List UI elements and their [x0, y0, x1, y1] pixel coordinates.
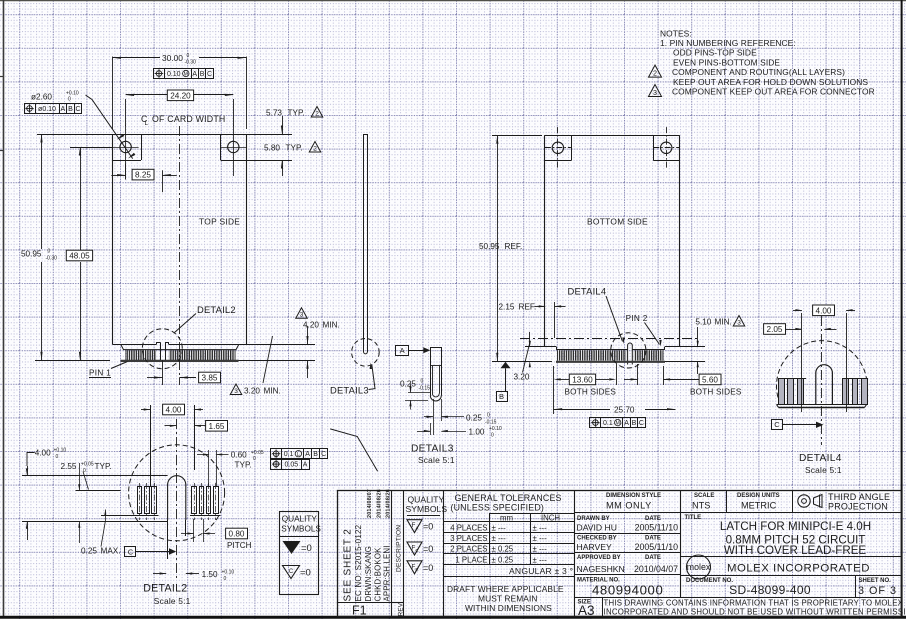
- svg-text:L: L: [297, 452, 300, 458]
- svg-text:C: C: [289, 569, 294, 575]
- svg-text:3: 3: [300, 312, 304, 319]
- svg-text:3: 3: [653, 88, 657, 97]
- svg-text:B: B: [499, 392, 504, 401]
- svg-text:1 PLACE: 1 PLACE: [455, 555, 487, 564]
- svg-text:+0.05: +0.05: [81, 461, 94, 467]
- svg-text:Scale 5:1: Scale 5:1: [154, 596, 191, 606]
- svg-text:4.00: 4.00: [166, 405, 182, 414]
- svg-text:4.00: 4.00: [35, 449, 51, 458]
- svg-text:NTS: NTS: [692, 501, 710, 511]
- svg-text:3: 3: [737, 319, 741, 326]
- svg-text:BOTH SIDES: BOTH SIDES: [565, 388, 617, 397]
- svg-text:C: C: [774, 420, 780, 429]
- svg-text:5.73: 5.73: [266, 109, 282, 118]
- svg-text:1.50: 1.50: [202, 570, 218, 579]
- svg-text:± ---: ± ---: [533, 524, 548, 533]
- svg-text:0.1: 0.1: [284, 451, 294, 458]
- svg-text:2 PLACES: 2 PLACES: [450, 545, 487, 554]
- svg-text:WITH COVER LEAD-FREE: WITH COVER LEAD-FREE: [724, 544, 867, 557]
- svg-text:QUALITY: QUALITY: [408, 495, 445, 505]
- svg-text:0.60: 0.60: [231, 451, 247, 460]
- svg-text:COMPONENT KEEP OUT AREA FOR CO: COMPONENT KEEP OUT AREA FOR CONNECTOR: [672, 87, 875, 97]
- svg-text:50.95: 50.95: [479, 242, 500, 251]
- svg-text:ODD PINS-TOP SIDE: ODD PINS-TOP SIDE: [673, 48, 757, 58]
- svg-text:2: 2: [313, 145, 317, 152]
- svg-text:A: A: [305, 451, 310, 458]
- svg-text:0.1: 0.1: [603, 420, 613, 427]
- svg-text:DATE: DATE: [645, 555, 661, 561]
- svg-text:+0.05: +0.05: [251, 450, 264, 456]
- svg-text:=0: =0: [423, 522, 433, 532]
- svg-text:EVEN PINS-BOTTOM SIDE: EVEN PINS-BOTTOM SIDE: [673, 57, 780, 67]
- svg-text:25.70: 25.70: [614, 406, 635, 415]
- svg-text:DETAIL4: DETAIL4: [799, 453, 842, 464]
- svg-text:3.20: 3.20: [244, 387, 260, 396]
- svg-text:TYP.: TYP.: [95, 462, 112, 471]
- svg-text:=0: =0: [301, 543, 312, 554]
- svg-text:5.60: 5.60: [702, 375, 718, 384]
- svg-text:2014/08/26: 2014/08/26: [386, 489, 392, 518]
- svg-text:3 PLACES: 3 PLACES: [450, 534, 487, 543]
- svg-text:0: 0: [56, 454, 59, 460]
- svg-text:2.55: 2.55: [61, 462, 77, 471]
- svg-text:0.05: 0.05: [285, 462, 299, 469]
- svg-text:SCALE: SCALE: [694, 493, 714, 499]
- svg-text:1. PIN NUMBERING REFERENCE:: 1. PIN NUMBERING REFERENCE:: [660, 38, 796, 48]
- svg-text:0: 0: [68, 97, 71, 103]
- svg-text:3.85: 3.85: [202, 373, 218, 382]
- svg-text:C: C: [128, 548, 134, 557]
- svg-text:+0.10: +0.10: [489, 426, 502, 432]
- svg-text:A3: A3: [578, 603, 595, 618]
- svg-text:molex: molex: [687, 562, 711, 572]
- svg-text:SYMBOLS: SYMBOLS: [406, 504, 448, 514]
- svg-text:REF.: REF.: [505, 242, 523, 251]
- svg-text:MUST REMAIN: MUST REMAIN: [478, 594, 538, 604]
- svg-text:TYP.: TYP.: [286, 144, 303, 153]
- svg-text:+0.10: +0.10: [222, 569, 235, 575]
- svg-text:± ---: ± ---: [533, 545, 548, 554]
- svg-text:2: 2: [653, 69, 657, 78]
- svg-text:B: B: [632, 420, 637, 427]
- svg-text:APPR:SH.LENI: APPR:SH.LENI: [383, 545, 392, 601]
- svg-text:B: B: [200, 71, 205, 78]
- svg-text:0.80: 0.80: [229, 529, 245, 538]
- svg-text:0: 0: [487, 412, 490, 418]
- svg-text:EC NO: S2015-0122: EC NO: S2015-0122: [354, 524, 363, 601]
- svg-text:=0: =0: [423, 563, 433, 573]
- svg-text:DATE: DATE: [645, 536, 661, 542]
- svg-text:TITLE: TITLE: [685, 515, 702, 521]
- svg-text:1.65: 1.65: [209, 422, 225, 431]
- svg-text:TYP.: TYP.: [235, 460, 252, 469]
- svg-text:BOTTOM SIDE: BOTTOM SIDE: [587, 217, 648, 227]
- svg-text:DETAIL2: DETAIL2: [143, 583, 187, 595]
- svg-text:LATCH FOR MINIPCI-E 4.0H: LATCH FOR MINIPCI-E 4.0H: [720, 520, 871, 533]
- svg-text:2014/08/07: 2014/08/07: [367, 489, 373, 518]
- svg-text:5.80: 5.80: [264, 144, 280, 153]
- svg-text:A: A: [624, 420, 629, 427]
- svg-text:APPROVED BY: APPROVED BY: [577, 555, 621, 561]
- svg-text:MIN.: MIN.: [715, 318, 732, 327]
- svg-text:± ---: ± ---: [533, 555, 548, 564]
- svg-text:A: A: [400, 346, 405, 355]
- svg-text:(UNLESS SPECIFIED): (UNLESS SPECIFIED): [451, 503, 545, 513]
- svg-text:-0.30: -0.30: [46, 256, 58, 262]
- svg-text:=0: =0: [300, 568, 311, 579]
- svg-text:4.20: 4.20: [303, 321, 319, 330]
- svg-text:SHEET NO.: SHEET NO.: [859, 578, 892, 584]
- svg-text:NAGESHKN: NAGESHKN: [577, 564, 625, 574]
- svg-text:DETAIL2: DETAIL2: [197, 304, 236, 315]
- svg-text:ø0.10: ø0.10: [38, 106, 56, 113]
- svg-text:A: A: [192, 71, 197, 78]
- svg-text:CHKD:BOKOK: CHKD:BOKOK: [374, 547, 383, 602]
- svg-text:MIN.: MIN.: [264, 387, 281, 396]
- svg-text:THIS DRAWING CONTAINS INFORMAT: THIS DRAWING CONTAINS INFORMATION THAT I…: [604, 598, 904, 607]
- svg-text:0: 0: [421, 379, 424, 385]
- svg-text:480994000: 480994000: [592, 583, 663, 598]
- svg-text:3.20: 3.20: [514, 373, 530, 382]
- svg-text:F1: F1: [352, 604, 367, 618]
- svg-text:2014/08/26: 2014/08/26: [377, 489, 383, 518]
- svg-text:REF.: REF.: [519, 303, 537, 312]
- svg-text:2005/11/10: 2005/11/10: [635, 523, 678, 533]
- svg-text:PROJECTION: PROJECTION: [828, 502, 888, 512]
- svg-text:5.10: 5.10: [695, 318, 711, 327]
- svg-text:MIN.: MIN.: [323, 321, 340, 330]
- svg-text:0: 0: [224, 576, 227, 582]
- svg-text:13.60: 13.60: [572, 375, 593, 384]
- svg-text:OF CARD WIDTH: OF CARD WIDTH: [152, 114, 225, 124]
- svg-text:INCORPORATED AND SHOULD NOT BE: INCORPORATED AND SHOULD NOT BE USED WITH…: [604, 607, 906, 616]
- svg-text:MOLEX INCORPORATED: MOLEX INCORPORATED: [727, 563, 870, 575]
- svg-text:L: L: [145, 120, 149, 127]
- svg-text:=0: =0: [423, 544, 433, 554]
- svg-text:-0.15: -0.15: [419, 386, 431, 392]
- svg-text:2005/11/10: 2005/11/10: [635, 542, 678, 552]
- svg-text:DETAIL4: DETAIL4: [568, 286, 607, 297]
- svg-text:ANGULAR ± 3 °: ANGULAR ± 3 °: [509, 566, 573, 576]
- svg-text:50.95: 50.95: [21, 250, 42, 259]
- svg-text:0: 0: [491, 433, 494, 439]
- svg-text:2.05: 2.05: [767, 325, 783, 334]
- svg-text:ø2.60: ø2.60: [31, 93, 52, 102]
- svg-text:0.25: 0.25: [466, 413, 482, 422]
- svg-text:8.25: 8.25: [135, 171, 151, 180]
- svg-text:3 OF 3: 3 OF 3: [858, 585, 897, 597]
- svg-text:0: 0: [187, 53, 190, 59]
- svg-text:M: M: [184, 72, 188, 78]
- svg-text:PIN 1: PIN 1: [89, 369, 111, 378]
- svg-text:DESIGN UNITS: DESIGN UNITS: [737, 493, 780, 499]
- svg-text:INCH: INCH: [541, 514, 560, 523]
- svg-text:3: 3: [234, 388, 238, 395]
- svg-text:DIMENSION STYLE: DIMENSION STYLE: [606, 493, 661, 499]
- svg-text:± ---: ± ---: [533, 534, 548, 543]
- svg-text:BOTH SIDES: BOTH SIDES: [690, 388, 742, 397]
- svg-text:DRWN:SKANG: DRWN:SKANG: [364, 546, 373, 602]
- svg-text:WITHIN DIMENSIONS: WITHIN DIMENSIONS: [465, 603, 552, 613]
- svg-text:M: M: [616, 421, 620, 427]
- svg-text:KEEP OUT AREA FOR HOLD DOWN SO: KEEP OUT AREA FOR HOLD DOWN SOLUTIONS: [673, 77, 868, 87]
- svg-text:+0.10: +0.10: [54, 448, 67, 454]
- svg-text:A: A: [416, 526, 419, 531]
- svg-text:DETAIL3: DETAIL3: [330, 384, 369, 395]
- svg-text:MAX.: MAX.: [101, 547, 121, 556]
- svg-text:DESCRIPTION: DESCRIPTION: [396, 525, 403, 572]
- svg-text:2: 2: [315, 110, 319, 117]
- svg-text:0.10: 0.10: [167, 71, 181, 78]
- svg-text:2010/04/07: 2010/04/07: [634, 564, 678, 574]
- svg-text:TYP.: TYP.: [288, 109, 305, 118]
- svg-text:Scale 5:1: Scale 5:1: [418, 455, 455, 465]
- svg-text:PITCH: PITCH: [227, 541, 252, 550]
- svg-text:C: C: [75, 106, 80, 113]
- svg-text:B: B: [68, 106, 73, 113]
- svg-text:0: 0: [253, 456, 256, 462]
- svg-text:REV: REV: [397, 602, 404, 616]
- svg-text:MM ONLY: MM ONLY: [606, 501, 652, 511]
- svg-text:QUALITY: QUALITY: [282, 515, 318, 524]
- svg-text:0.25: 0.25: [81, 547, 97, 556]
- svg-text:HARVEY: HARVEY: [577, 542, 612, 552]
- svg-text:A: A: [303, 462, 308, 469]
- svg-text:C: C: [415, 548, 418, 553]
- svg-text:B: B: [313, 451, 318, 458]
- svg-text:C: C: [639, 420, 644, 427]
- svg-text:± 0.25: ± 0.25: [492, 545, 514, 554]
- svg-text:DRAWN BY: DRAWN BY: [577, 516, 610, 522]
- svg-text:± 0.25: ± 0.25: [492, 555, 514, 564]
- svg-text:48.05: 48.05: [69, 251, 90, 260]
- svg-text:DAVID HU: DAVID HU: [577, 523, 617, 533]
- svg-text:THIRD ANGLE: THIRD ANGLE: [828, 492, 890, 502]
- svg-text:2.15: 2.15: [499, 303, 515, 312]
- svg-text:24.20: 24.20: [170, 91, 191, 100]
- svg-text:± ---: ± ---: [492, 524, 507, 533]
- svg-text:30.00: 30.00: [162, 53, 183, 63]
- svg-text:DOCUMENT NO.: DOCUMENT NO.: [686, 578, 733, 584]
- svg-text:R: R: [415, 567, 418, 572]
- svg-text:-0.15: -0.15: [485, 419, 497, 425]
- svg-text:1.00: 1.00: [469, 427, 485, 436]
- svg-text:0.25: 0.25: [400, 380, 416, 389]
- svg-text:TOP SIDE: TOP SIDE: [199, 217, 240, 227]
- svg-text:4 PLACES: 4 PLACES: [450, 524, 487, 533]
- svg-text:C: C: [207, 71, 212, 78]
- svg-text:DETAIL3: DETAIL3: [411, 444, 454, 455]
- svg-text:SEE SHEET 2: SEE SHEET 2: [343, 528, 354, 601]
- svg-text:4.00: 4.00: [816, 306, 832, 315]
- svg-text:DATE: DATE: [645, 516, 661, 522]
- svg-text:A: A: [60, 106, 65, 113]
- svg-text:COMPONENT AND ROUTING(ALL LAYE: COMPONENT AND ROUTING(ALL LAYERS): [672, 67, 845, 77]
- svg-text:GENERAL TOLERANCES: GENERAL TOLERANCES: [455, 493, 562, 503]
- svg-text:0: 0: [48, 249, 51, 255]
- svg-text:± ---: ± ---: [492, 534, 507, 543]
- svg-text:CHECKED BY: CHECKED BY: [577, 536, 617, 542]
- svg-text:Scale 5:1: Scale 5:1: [805, 465, 842, 475]
- svg-text:NOTES:: NOTES:: [660, 28, 692, 38]
- svg-text:SD-48099-400: SD-48099-400: [729, 583, 811, 597]
- svg-text:C: C: [321, 451, 326, 458]
- svg-text:mm: mm: [500, 514, 513, 523]
- svg-text:METRIC: METRIC: [741, 501, 777, 511]
- svg-text:DRAFT WHERE APPLICABLE: DRAFT WHERE APPLICABLE: [447, 584, 564, 594]
- svg-text:SYMBOLS: SYMBOLS: [281, 525, 321, 534]
- svg-text:PIN 2: PIN 2: [626, 314, 648, 323]
- svg-text:-0.30: -0.30: [185, 60, 197, 66]
